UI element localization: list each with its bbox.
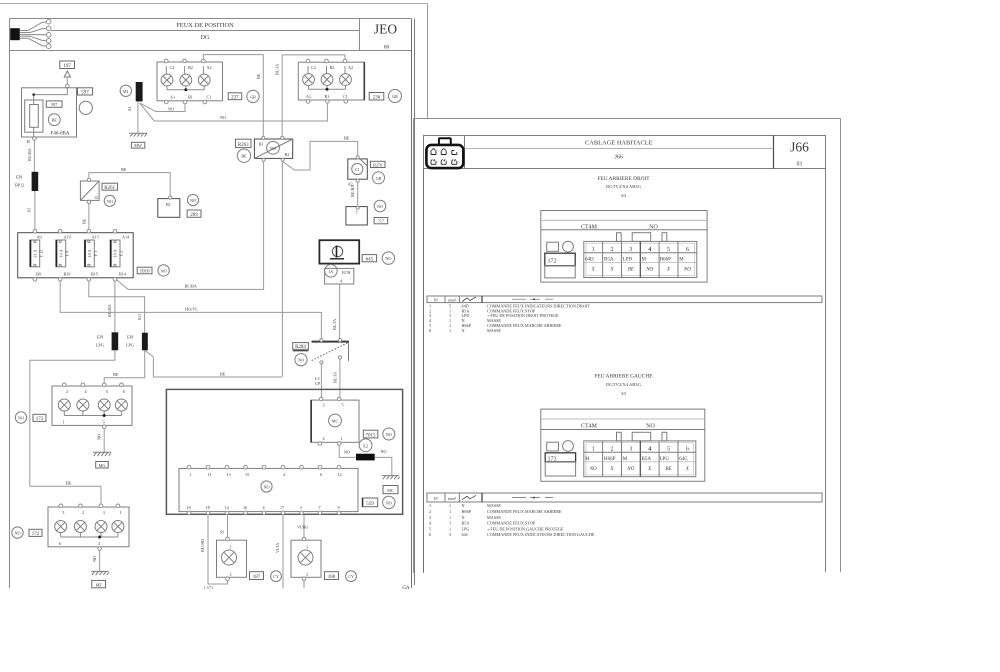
svg-text:mm²: mm² xyxy=(448,496,457,501)
svg-text:NO: NO xyxy=(18,416,24,421)
svg-text:M: M xyxy=(642,258,647,263)
svg-text:5: 5 xyxy=(62,510,64,515)
wire colour NO circle R261 xyxy=(104,195,115,206)
svg-text:A14: A14 xyxy=(122,235,130,240)
svg-text:B1: B1 xyxy=(188,95,193,100)
svg-text:R261: R261 xyxy=(104,186,115,191)
svg-text:B15: B15 xyxy=(91,272,98,277)
svg-text:BL/JA: BL/JA xyxy=(333,372,338,383)
svg-text:4: 4 xyxy=(429,521,432,526)
svg-text:65: 65 xyxy=(27,208,32,212)
svg-text:2: 2 xyxy=(230,572,232,577)
svg-text:A2: A2 xyxy=(348,65,353,70)
svg-text:C2: C2 xyxy=(170,65,175,70)
label R261 xyxy=(102,183,118,191)
wire R276 A2 down xyxy=(357,182,359,206)
svg-text:7: 7 xyxy=(355,210,357,215)
JEO box divider xyxy=(359,19,361,51)
svg-text:+ FEU DE POSITION GAUCHE PROTE: + FEU DE POSITION GAUCHE PROTEGE xyxy=(487,526,564,531)
svg-text:64D: 64D xyxy=(585,258,594,263)
fuse F9 xyxy=(56,240,70,267)
left page left border xyxy=(9,19,11,589)
svg-text:X: X xyxy=(609,267,614,272)
wire pin17 down VI/JA xyxy=(282,515,284,589)
label 559 xyxy=(362,498,377,507)
svg-text:NO: NO xyxy=(381,449,387,454)
label 209 xyxy=(187,210,201,218)
svg-text:CABLAGE HABITACLE: CABLAGE HABITACLE xyxy=(585,139,653,146)
svg-text:7015: 7015 xyxy=(366,433,377,438)
relay R263 xyxy=(254,139,292,158)
wire diode to fusebox A15 xyxy=(88,204,90,230)
svg-text:EPI: EPI xyxy=(16,175,23,180)
svg-text:BE: BE xyxy=(665,467,671,472)
wire EPI2 left branch to cluster173 xyxy=(104,350,145,382)
cluster 237 internal bus with junction xyxy=(166,66,204,91)
svg-text:1: 1 xyxy=(449,515,451,520)
svg-text:173: 173 xyxy=(36,417,44,422)
svg-text:3: 3 xyxy=(103,420,105,425)
ground MF xyxy=(91,571,109,575)
svg-text:mm²: mm² xyxy=(448,297,457,302)
svg-text:6: 6 xyxy=(686,446,689,452)
left page top paper edge xyxy=(0,3,427,5)
cluster 173 top pins xyxy=(63,383,126,394)
svg-text:10 A: 10 A xyxy=(113,249,118,257)
svg-text:A15: A15 xyxy=(92,235,99,240)
lighting switch 645 xyxy=(319,240,359,263)
svg-text:5: 5 xyxy=(667,247,670,253)
ground MW xyxy=(129,133,147,136)
wire table 2 rows xyxy=(429,503,595,537)
svg-text:NO: NO xyxy=(385,256,391,261)
svg-text:F 1: F 1 xyxy=(93,251,98,256)
svg-text:16: 16 xyxy=(243,505,247,510)
svg-text:12: 12 xyxy=(338,472,342,477)
wire colour NO circle 645 xyxy=(382,252,394,264)
svg-text:FEU ARRIERE GAUCHE: FEU ARRIERE GAUCHE xyxy=(594,374,653,380)
label 237 xyxy=(228,93,242,101)
svg-text:F 9: F 9 xyxy=(65,251,70,256)
svg-text:MG: MG xyxy=(99,463,106,468)
svg-text:X: X xyxy=(609,467,614,472)
block 172 pin grid xyxy=(584,241,697,277)
svg-text:12: 12 xyxy=(94,195,98,200)
svg-text:CY: CY xyxy=(273,574,279,579)
wire RG/BA down from 597 xyxy=(33,140,35,172)
svg-text:CT4M: CT4M xyxy=(581,424,598,430)
label 187 xyxy=(250,572,264,580)
cluster 237 lamps xyxy=(161,74,210,86)
wire shunt to ground xyxy=(375,457,392,475)
rheostat R284 xyxy=(312,339,349,365)
label 173 xyxy=(33,414,46,422)
svg-text:LPG: LPG xyxy=(126,343,134,348)
svg-text:HG/VL: HG/VL xyxy=(185,307,198,312)
svg-text:1: 1 xyxy=(449,521,451,526)
svg-text:MASSE: MASSE xyxy=(487,515,501,520)
svg-text:4: 4 xyxy=(648,446,651,452)
right page paper edges xyxy=(414,118,841,120)
title bar frame xyxy=(10,18,412,20)
svg-text:10: 10 xyxy=(187,505,191,510)
component 197 label xyxy=(60,61,75,69)
svg-text:00: 00 xyxy=(384,45,390,51)
svg-text:1: 1 xyxy=(449,509,451,514)
svg-text:DG: DG xyxy=(201,34,210,41)
pin strip bottom pins xyxy=(187,505,341,515)
cluster 173 internal bus xyxy=(64,411,121,417)
daytime relay R276 xyxy=(348,156,368,187)
svg-text:NO: NO xyxy=(649,224,658,230)
svg-text:M: M xyxy=(623,457,628,462)
block 173 id boxes xyxy=(545,441,575,476)
svg-text:NO: NO xyxy=(168,106,174,111)
svg-text:NO: NO xyxy=(161,268,167,273)
svg-text:R276: R276 xyxy=(373,162,382,167)
svg-text:2: 2 xyxy=(66,389,68,394)
svg-text:1: 1 xyxy=(592,446,595,452)
svg-text:5: 5 xyxy=(667,446,670,452)
svg-text:COMMANDE FEUX MARCHE ARRIERE: COMMANDE FEUX MARCHE ARRIERE xyxy=(487,509,562,514)
svg-text:14: 14 xyxy=(225,505,230,510)
svg-text:JA: JA xyxy=(329,269,334,274)
svg-text:2: 2 xyxy=(82,510,84,515)
cluster 236 internal bus with junction xyxy=(308,66,346,91)
svg-text:9: 9 xyxy=(338,505,340,510)
svg-text:F 2: F 2 xyxy=(119,251,124,256)
svg-text:13: 13 xyxy=(227,472,231,477)
connector block 173 outer xyxy=(541,409,705,481)
wire colour NO circle fusebox xyxy=(158,265,169,276)
svg-text:645: 645 xyxy=(366,258,374,263)
fusebox top pins xyxy=(33,229,130,239)
svg-text:B2: B2 xyxy=(285,152,290,157)
cluster 173 bottom pins xyxy=(63,420,106,429)
label 717 xyxy=(374,218,388,224)
svg-text:1: 1 xyxy=(449,526,451,531)
svg-text:C2: C2 xyxy=(311,65,316,70)
ground MC xyxy=(382,476,400,480)
svg-text:JEO: JEO xyxy=(374,21,398,36)
label 645 xyxy=(362,255,376,263)
svg-text:1.171: 1.171 xyxy=(204,585,213,590)
wire colour CY circle 188 xyxy=(346,571,357,582)
wire BL/JA riser cluster236 A2 down xyxy=(282,55,345,136)
svg-text:CY: CY xyxy=(348,574,354,579)
wire NO bus S1 to cluster236 xyxy=(140,103,328,121)
svg-text:NO: NO xyxy=(298,358,304,363)
svg-text:5: 5 xyxy=(429,526,431,531)
svg-text:2: 2 xyxy=(306,572,308,577)
svg-text:6: 6 xyxy=(429,328,431,333)
wire lamp188 pin2 down xyxy=(303,581,305,589)
svg-text:S4: S4 xyxy=(621,193,627,198)
svg-text:BE: BE xyxy=(82,218,87,224)
shunt wire MR pin1 xyxy=(339,445,356,457)
svg-text:B5A: B5A xyxy=(642,457,652,462)
pin strip top pins xyxy=(187,465,341,476)
svg-text:B19: B19 xyxy=(64,272,71,277)
svg-text:J66: J66 xyxy=(790,140,809,155)
svg-text:3: 3 xyxy=(629,446,632,452)
svg-text:M: M xyxy=(585,457,590,462)
svg-text:GR: GR xyxy=(392,94,398,99)
svg-text:X: X xyxy=(647,467,652,472)
lamp cluster 173 box xyxy=(52,386,132,425)
label 172 xyxy=(29,529,42,537)
svg-text:A1: A1 xyxy=(170,95,175,100)
svg-text:NO: NO xyxy=(589,467,597,472)
wire pin14 to lamp187 xyxy=(227,515,229,541)
svg-text:ECH: ECH xyxy=(342,270,350,275)
cluster 173 lamps xyxy=(58,399,127,411)
harness connector icon top-left xyxy=(10,19,51,48)
svg-text:2: 2 xyxy=(429,509,431,514)
svg-text:FEUX DE POSITION: FEUX DE POSITION xyxy=(176,22,234,29)
svg-text:4: 4 xyxy=(323,436,326,441)
svg-text:H66P: H66P xyxy=(660,258,672,263)
svg-text:LPG: LPG xyxy=(660,457,670,462)
wire NO cluster237 B1 to S1 xyxy=(140,103,186,112)
svg-text:BE: BE xyxy=(52,118,58,123)
svg-text:1: 1 xyxy=(306,545,308,550)
svg-text:4: 4 xyxy=(340,279,343,284)
connector block 172 outer xyxy=(541,211,707,283)
svg-text:GR: GR xyxy=(376,176,382,181)
fuse F2 xyxy=(110,240,124,267)
wire pin18 down xyxy=(208,515,228,584)
wire colour NO circle 173 xyxy=(15,412,26,423)
svg-text:NO: NO xyxy=(386,432,392,437)
buzzer 197 triangle xyxy=(64,71,70,77)
svg-text:B1: B1 xyxy=(325,94,330,99)
label 1016 xyxy=(137,267,152,274)
capteur B1 box xyxy=(158,196,180,217)
svg-text:A1: A1 xyxy=(306,94,311,99)
svg-text:BE: BE xyxy=(256,73,261,79)
svg-text:B14: B14 xyxy=(119,272,127,277)
wire colour NO circle 559 xyxy=(383,496,395,508)
svg-text:MW: MW xyxy=(134,143,142,148)
svg-text:C1: C1 xyxy=(355,167,360,172)
svg-text:FEU ARRIERE DROIT: FEU ARRIERE DROIT xyxy=(597,176,650,182)
svg-text:MC: MC xyxy=(387,488,394,493)
svg-text:1: 1 xyxy=(190,472,192,477)
wire table 1 header xyxy=(427,296,822,303)
svg-text:A9: A9 xyxy=(37,235,42,240)
pin strip NO circle xyxy=(261,481,272,492)
wire JA to R284 xyxy=(339,284,341,340)
wire colour NO circle 717 xyxy=(374,200,386,212)
wire B14 to EPI bar1 xyxy=(114,281,116,332)
ground label MG xyxy=(96,462,109,469)
wire cluster173 pin3 to ground xyxy=(103,429,105,452)
svg-text:1: 1 xyxy=(592,247,595,253)
svg-text:2: 2 xyxy=(283,472,285,477)
wire relay B2 to R276 xyxy=(283,141,358,170)
svg-text:M: M xyxy=(679,258,684,263)
svg-text:MASSE: MASSE xyxy=(487,328,501,333)
svg-text:1: 1 xyxy=(63,420,65,425)
svg-text:11: 11 xyxy=(208,472,212,477)
wire colour GR circle 2 xyxy=(389,90,402,103)
svg-text:B: B xyxy=(27,139,30,144)
fuse unit 597 xyxy=(22,88,77,137)
svg-text:6: 6 xyxy=(686,247,689,253)
svg-text:6: 6 xyxy=(429,532,431,537)
svg-text:717: 717 xyxy=(378,219,384,224)
connector box 7 xyxy=(346,206,367,225)
fuse F12 xyxy=(30,240,44,267)
svg-text:N°: N° xyxy=(434,496,439,501)
svg-text:3: 3 xyxy=(323,403,325,408)
svg-text:1: 1 xyxy=(120,510,122,515)
label R276 xyxy=(371,161,386,167)
svg-text:1: 1 xyxy=(449,328,451,333)
svg-text:LPG: LPG xyxy=(96,343,104,348)
svg-text:C1: C1 xyxy=(207,95,212,100)
svg-text:BE/BA: BE/BA xyxy=(350,185,355,197)
svg-text:B9: B9 xyxy=(36,272,41,277)
wire table 1 rows xyxy=(429,303,590,333)
svg-text:209: 209 xyxy=(190,213,198,218)
svg-text:NO: NO xyxy=(220,115,226,120)
svg-text:BE: BE xyxy=(628,267,634,272)
switch module MR box xyxy=(311,397,359,445)
shunt bar xyxy=(356,454,375,461)
svg-text:EPI: EPI xyxy=(97,335,104,340)
svg-text:BE: BE xyxy=(113,372,119,377)
svg-text:BE: BE xyxy=(241,154,247,159)
lamp cluster 236 box xyxy=(298,62,364,100)
svg-text:10 A: 10 A xyxy=(87,249,92,257)
cluster 172 lamps xyxy=(55,521,124,533)
ground MG xyxy=(93,452,111,456)
svg-text:4: 4 xyxy=(263,505,266,510)
svg-text:BL/JA: BL/JA xyxy=(275,64,280,75)
lamp 187 box xyxy=(217,537,247,580)
cluster 236 bottom pins xyxy=(306,94,348,103)
wire EPI1 to cluster172 feed xyxy=(30,350,115,504)
svg-text:B1: B1 xyxy=(259,141,264,146)
label 597 inner xyxy=(46,101,62,107)
circle symbol next to 597 xyxy=(79,101,92,114)
svg-text:597: 597 xyxy=(51,102,57,107)
svg-text:64C: 64C xyxy=(462,532,469,537)
wire S1 to ground xyxy=(137,101,139,132)
svg-text:BE: BE xyxy=(220,372,226,377)
svg-text:1: 1 xyxy=(449,503,451,508)
wire BE diode to B1 box xyxy=(89,173,170,197)
block 173 pin grid xyxy=(584,441,696,477)
svg-text:BE: BE xyxy=(121,167,127,172)
lamp sensor M1 circle xyxy=(120,85,131,96)
label 597 outer xyxy=(78,88,93,96)
svg-text:559: 559 xyxy=(366,502,374,507)
right page inner frame left/right xyxy=(423,136,425,573)
block 173 keying tabs xyxy=(617,432,667,441)
svg-text:GA: GA xyxy=(402,586,410,591)
svg-text:R284: R284 xyxy=(295,345,306,350)
svg-text:3: 3 xyxy=(103,510,105,515)
svg-text:01: 01 xyxy=(797,162,803,168)
svg-text:A19: A19 xyxy=(64,235,71,240)
svg-text:6: 6 xyxy=(59,541,61,546)
ground label MF xyxy=(92,580,106,587)
pin B of 597 xyxy=(33,137,37,141)
svg-text:7: 7 xyxy=(319,505,321,510)
svg-text:N: N xyxy=(462,515,465,520)
svg-text:BE: BE xyxy=(344,135,350,140)
svg-text:B2: B2 xyxy=(188,65,193,70)
svg-text:NO: NO xyxy=(190,198,196,203)
connector JA pin 4 xyxy=(325,265,354,285)
wire colour NO circle 172 xyxy=(12,527,23,538)
svg-text:BE: BE xyxy=(66,481,72,486)
wire colour CY circle 187 xyxy=(271,571,282,582)
svg-text:17: 17 xyxy=(280,505,284,510)
svg-text:CP: CP xyxy=(315,381,321,386)
svg-text:236: 236 xyxy=(373,96,381,101)
left page right inner border (double) xyxy=(411,19,413,589)
wire cluster237 A2 to BE riser xyxy=(203,55,263,137)
svg-text:3: 3 xyxy=(429,515,431,520)
svg-text:H66P: H66P xyxy=(604,457,616,462)
svg-text:J66: J66 xyxy=(615,155,623,161)
fusebox bottom pins xyxy=(33,272,127,282)
svg-text:F46-6BA: F46-6BA xyxy=(51,132,70,137)
svg-text:DGTV2/X4 AB3G: DGTV2/X4 AB3G xyxy=(606,382,642,387)
svg-text:5: 5 xyxy=(300,505,302,510)
svg-text:172: 172 xyxy=(32,532,40,537)
svg-text:X: X xyxy=(591,267,596,272)
ECU pin strip box xyxy=(179,468,358,511)
svg-text:N: N xyxy=(462,503,465,508)
svg-text:65J: 65J xyxy=(137,314,142,320)
svg-text:N°: N° xyxy=(434,297,439,302)
wire R284 to MR pin3 xyxy=(320,364,322,398)
wire colour GR circle R276 xyxy=(373,172,385,184)
svg-text:RG/BA: RG/BA xyxy=(27,148,32,161)
svg-text:BL/JA: BL/JA xyxy=(332,319,337,330)
svg-text:CT4M: CT4M xyxy=(581,224,598,230)
svg-text:R263: R263 xyxy=(238,143,249,148)
svg-text:1: 1 xyxy=(341,436,343,441)
ECU outer box 160 xyxy=(166,389,402,514)
svg-text:1: 1 xyxy=(230,545,232,550)
wire colour E2 circle xyxy=(359,439,372,452)
svg-text:M1: M1 xyxy=(123,89,129,94)
svg-text:NO: NO xyxy=(626,467,634,472)
svg-text:BU/NO: BU/NO xyxy=(200,539,205,552)
svg-text:S3: S3 xyxy=(621,391,627,396)
cluster 172 bottom pins xyxy=(59,541,102,551)
svg-text:5: 5 xyxy=(106,389,108,394)
cluster 172 top pins xyxy=(59,504,122,515)
svg-text:B5A: B5A xyxy=(462,521,470,526)
right title bar frame xyxy=(424,136,826,169)
svg-text:237: 237 xyxy=(231,95,239,100)
fuse F1 xyxy=(84,240,98,267)
diode R261 xyxy=(80,178,99,203)
block 172 keying tabs xyxy=(617,233,667,242)
wire pin5 to lamp188 xyxy=(303,515,305,541)
label 7015 xyxy=(363,430,378,438)
svg-text:DGTV2/X4 AB3G: DGTV2/X4 AB3G xyxy=(606,184,642,189)
svg-text:NO: NO xyxy=(377,204,383,209)
svg-text:NO: NO xyxy=(107,199,113,204)
